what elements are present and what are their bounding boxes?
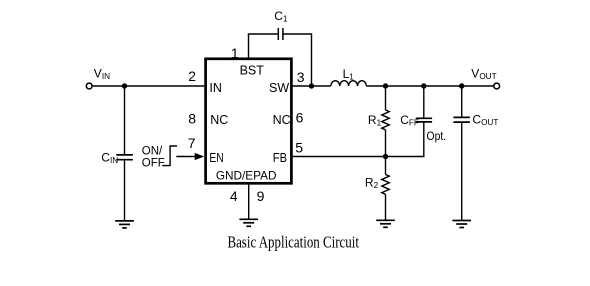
- resistor R2: [382, 175, 389, 195]
- node junction SW/C1: [309, 83, 314, 88]
- svg-text:SW: SW: [269, 81, 289, 95]
- wire COUT bottom: [461, 122, 463, 220]
- wire C1 right: [283, 33, 312, 35]
- node junction VIN/CIN: [122, 83, 127, 88]
- node junction R1/R2/FB: [383, 154, 388, 159]
- node junction COUT top: [459, 83, 464, 88]
- capacitor CIN: [116, 155, 133, 160]
- wire R1 top: [385, 86, 387, 110]
- svg-text:BST: BST: [240, 64, 265, 78]
- wire pin 1 (BST) up: [248, 34, 250, 60]
- svg-text:NC: NC: [210, 113, 228, 127]
- wire R2 top: [385, 157, 387, 175]
- wire CFF top: [423, 86, 425, 118]
- svg-text:ON/: ON/: [142, 146, 163, 158]
- terminal VOUT (open circle): [494, 83, 500, 89]
- resistor R1: [382, 110, 389, 130]
- node junction R1 top: [383, 83, 388, 88]
- node junction CFF top: [421, 83, 426, 88]
- wire R2 bottom: [385, 194, 387, 220]
- wire C1 left: [248, 33, 278, 35]
- svg-text:6: 6: [296, 109, 304, 125]
- wire FB (pin 5) to CFF: [293, 156, 425, 158]
- wire GND/EPAD pin down: [248, 183, 250, 219]
- svg-text:IN: IN: [209, 81, 222, 95]
- wire SW (pin 3) to L1: [293, 85, 331, 87]
- wire CIN top: [124, 86, 126, 155]
- capacitor CFF: [416, 118, 432, 122]
- capacitor C1: [278, 28, 283, 40]
- ground (COUT): [452, 221, 471, 228]
- svg-text:9: 9: [257, 188, 265, 204]
- wire COUT top: [461, 86, 463, 117]
- wire C1 down to SW rail: [311, 33, 313, 86]
- wire R1 bottom: [385, 130, 387, 157]
- svg-text:NC: NC: [273, 113, 291, 127]
- step symbol (enable waveform): [162, 146, 177, 166]
- capacitor COUT: [453, 117, 470, 122]
- svg-text:8: 8: [188, 110, 196, 126]
- wire VIN to pin 2: [93, 85, 205, 87]
- svg-text:Opt.: Opt.: [427, 129, 447, 143]
- svg-text:2: 2: [188, 68, 196, 84]
- svg-text:GND/EPAD: GND/EPAD: [216, 168, 277, 182]
- svg-text:OFF: OFF: [142, 157, 165, 169]
- svg-text:7: 7: [188, 135, 196, 151]
- svg-text:4: 4: [230, 188, 238, 204]
- svg-text:FB: FB: [273, 151, 287, 165]
- wire CFF bottom: [423, 122, 425, 157]
- wire EN arrow shaft: [176, 156, 195, 158]
- svg-text:3: 3: [297, 69, 305, 85]
- ground (CIN): [115, 221, 134, 228]
- svg-text:Basic Application Circuit: Basic Application Circuit: [227, 232, 359, 251]
- arrowhead into EN pin 7: [195, 153, 205, 160]
- wire L1 to VOUT: [366, 85, 494, 87]
- ground (R2): [376, 220, 395, 227]
- wire CIN bottom: [124, 160, 126, 221]
- op IC U1 body: [206, 59, 292, 184]
- ground (EPAD): [239, 219, 258, 226]
- svg-text:5: 5: [295, 140, 303, 156]
- svg-text:EN: EN: [209, 151, 223, 165]
- svg-text:1: 1: [231, 45, 239, 61]
- terminal VIN (open circle): [86, 83, 92, 89]
- inductor L1: [331, 81, 366, 86]
